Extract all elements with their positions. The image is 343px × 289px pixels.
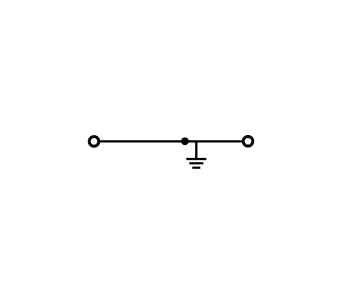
terminal left [89,137,99,147]
terminal right [243,137,253,147]
wire [99,140,243,142]
junction dot [181,137,189,145]
ground [186,159,206,168]
wire to ground [195,141,197,159]
